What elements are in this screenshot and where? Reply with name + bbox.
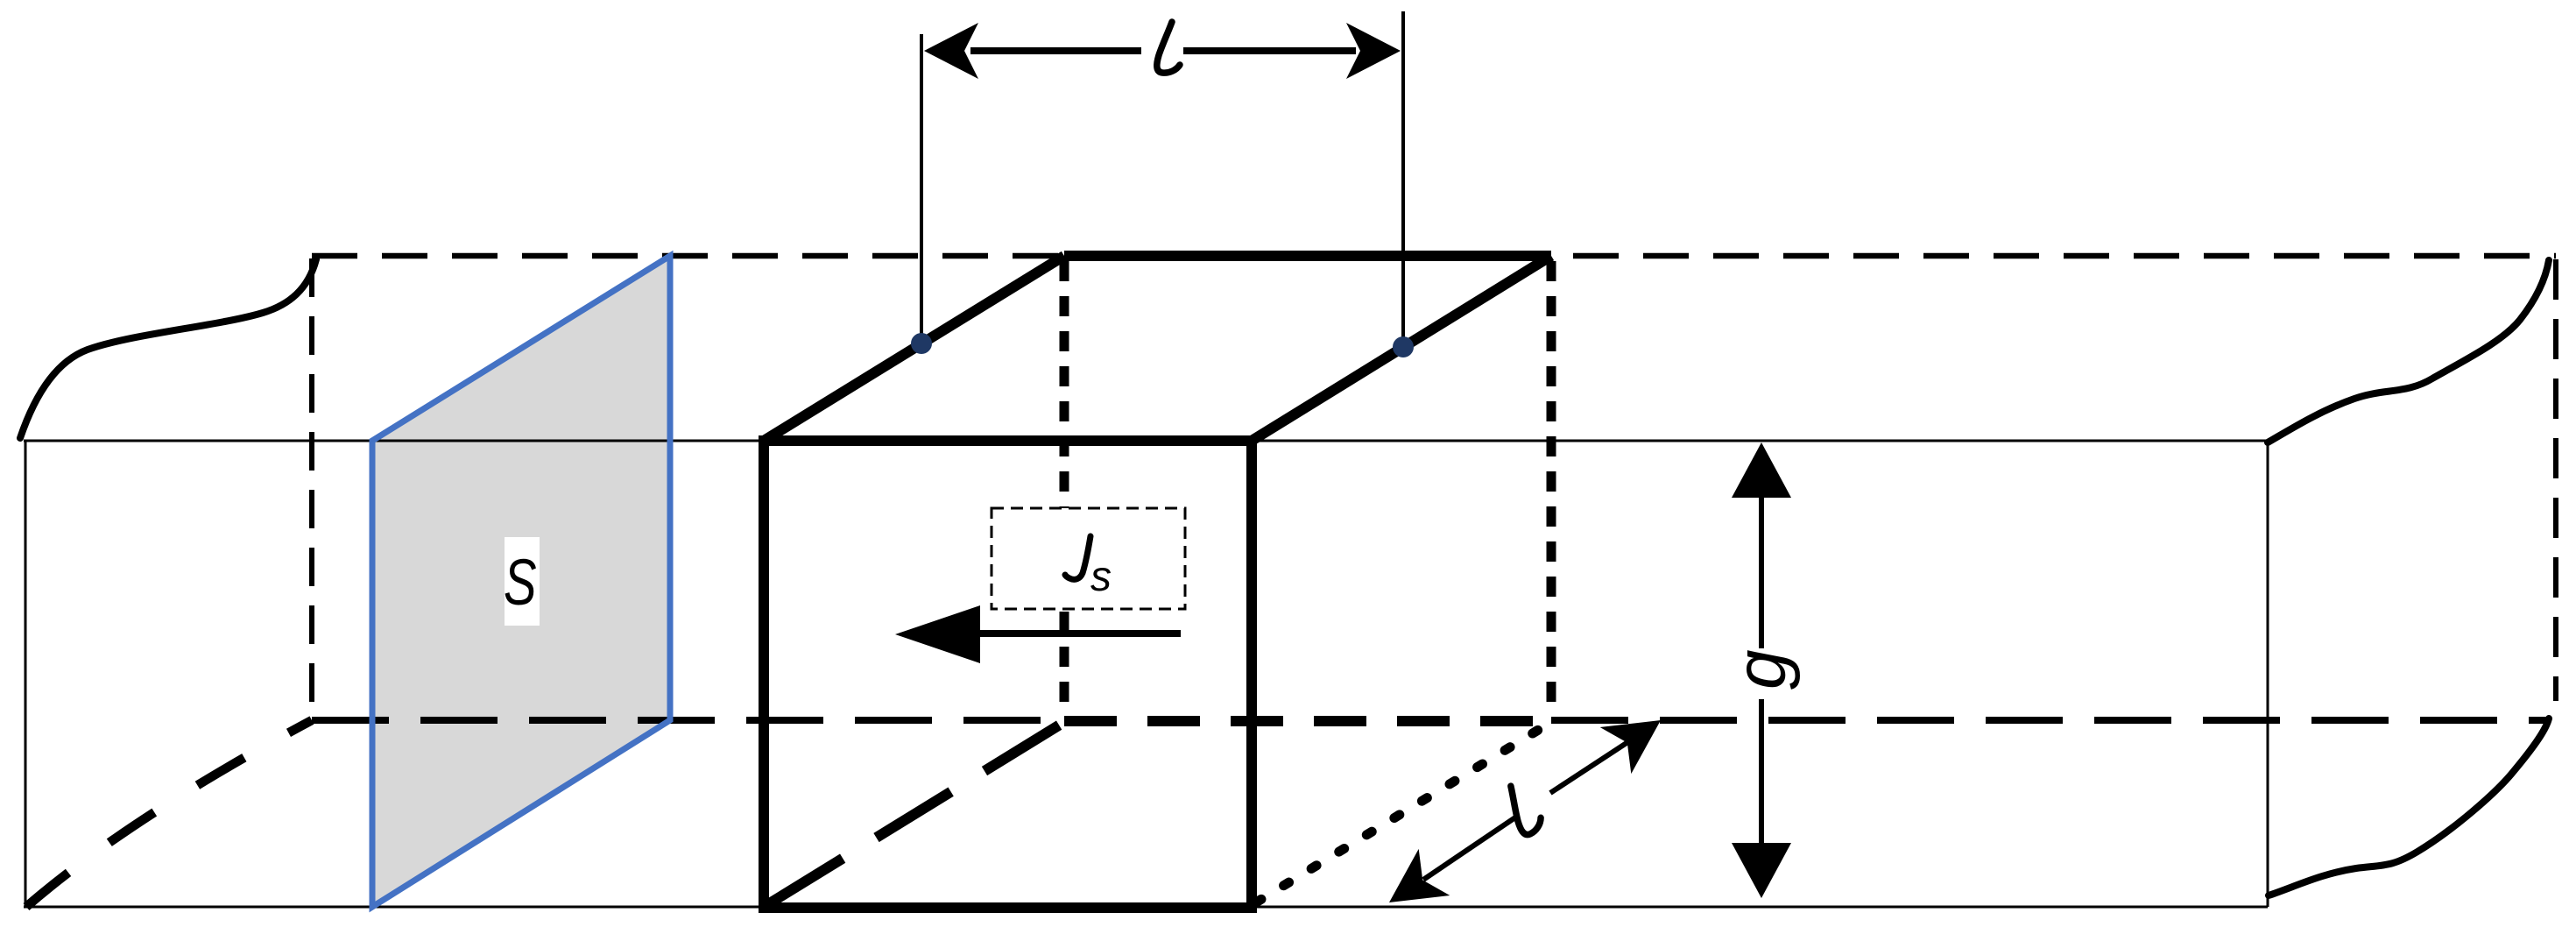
diagonal arrowhead lower	[1389, 849, 1450, 902]
S label	[504, 547, 537, 619]
top dimension arrow shaft left part	[970, 47, 1141, 54]
cube hidden back-left vertical edge (dotted)	[1060, 261, 1069, 717]
Js arrowhead	[895, 605, 980, 663]
top dimension arrowhead right	[1346, 23, 1401, 79]
label g (rotated)	[1740, 648, 1802, 699]
label J	[1065, 536, 1090, 579]
slab front left edge	[25, 441, 27, 907]
slab hidden bottom-left diagonal edge (dashed curve)	[26, 720, 312, 907]
cube top back edge	[1064, 251, 1551, 261]
slab front top edge	[24, 440, 2268, 442]
label l (top)	[1157, 22, 1180, 73]
slab hidden bottom back edge right part (dashed)	[1551, 717, 2550, 724]
cube front face	[764, 441, 1252, 908]
top dimension arrowhead left	[924, 23, 978, 79]
slab back top edge (dashed)	[312, 253, 2556, 259]
svg-text:g: g	[1721, 649, 1801, 690]
cube hidden back-right vertical edge (dotted)	[1547, 261, 1556, 717]
break squiggle top right	[2268, 260, 2549, 442]
g arrowhead bottom	[1732, 843, 1791, 898]
g dimension arrow shaft	[1759, 482, 1764, 859]
svg-text:s: s	[1090, 554, 1112, 600]
S label white box	[505, 537, 540, 626]
left extension line	[920, 34, 923, 343]
slab hidden bottom back edge (dashed)	[312, 717, 1064, 724]
slab back-right vertical edge (dashed)	[2553, 259, 2558, 701]
g arrowhead top	[1732, 442, 1791, 498]
top dimension arrow shaft right part	[1183, 47, 1356, 54]
diagonal dimension arrow shaft	[1423, 817, 1515, 880]
surface S blue outline	[372, 256, 670, 907]
cube top-left slant edge	[764, 256, 1064, 441]
slab front bottom edge	[24, 906, 2268, 909]
navy dot left	[911, 333, 932, 354]
break squiggle bottom right	[2269, 718, 2549, 895]
label l (diagonal, rotated)	[1498, 782, 1545, 837]
surface S gray fill	[372, 256, 670, 907]
diagonal arrowhead upper	[1600, 720, 1661, 774]
right extension line	[1401, 11, 1405, 347]
cube hidden back bottom edge (thick dashes)	[1064, 716, 1551, 726]
diagonal dimension arrow shaft upper part	[1550, 741, 1629, 793]
cube top-right slant edge	[1252, 256, 1551, 441]
Js arrow shaft	[972, 630, 1181, 637]
cube bottom-left diagonal edge (thick dashes)	[768, 722, 1064, 904]
slab front right edge	[2267, 441, 2269, 907]
navy dot right	[1393, 336, 1414, 357]
svg-text:S: S	[504, 547, 537, 619]
slab back-left vertical edge (dashed)	[309, 258, 314, 718]
break squiggle top left	[20, 259, 316, 438]
Js dashed box	[992, 508, 1185, 609]
cube bottom-right diagonal edge (dotted pills)	[1256, 722, 1551, 902]
